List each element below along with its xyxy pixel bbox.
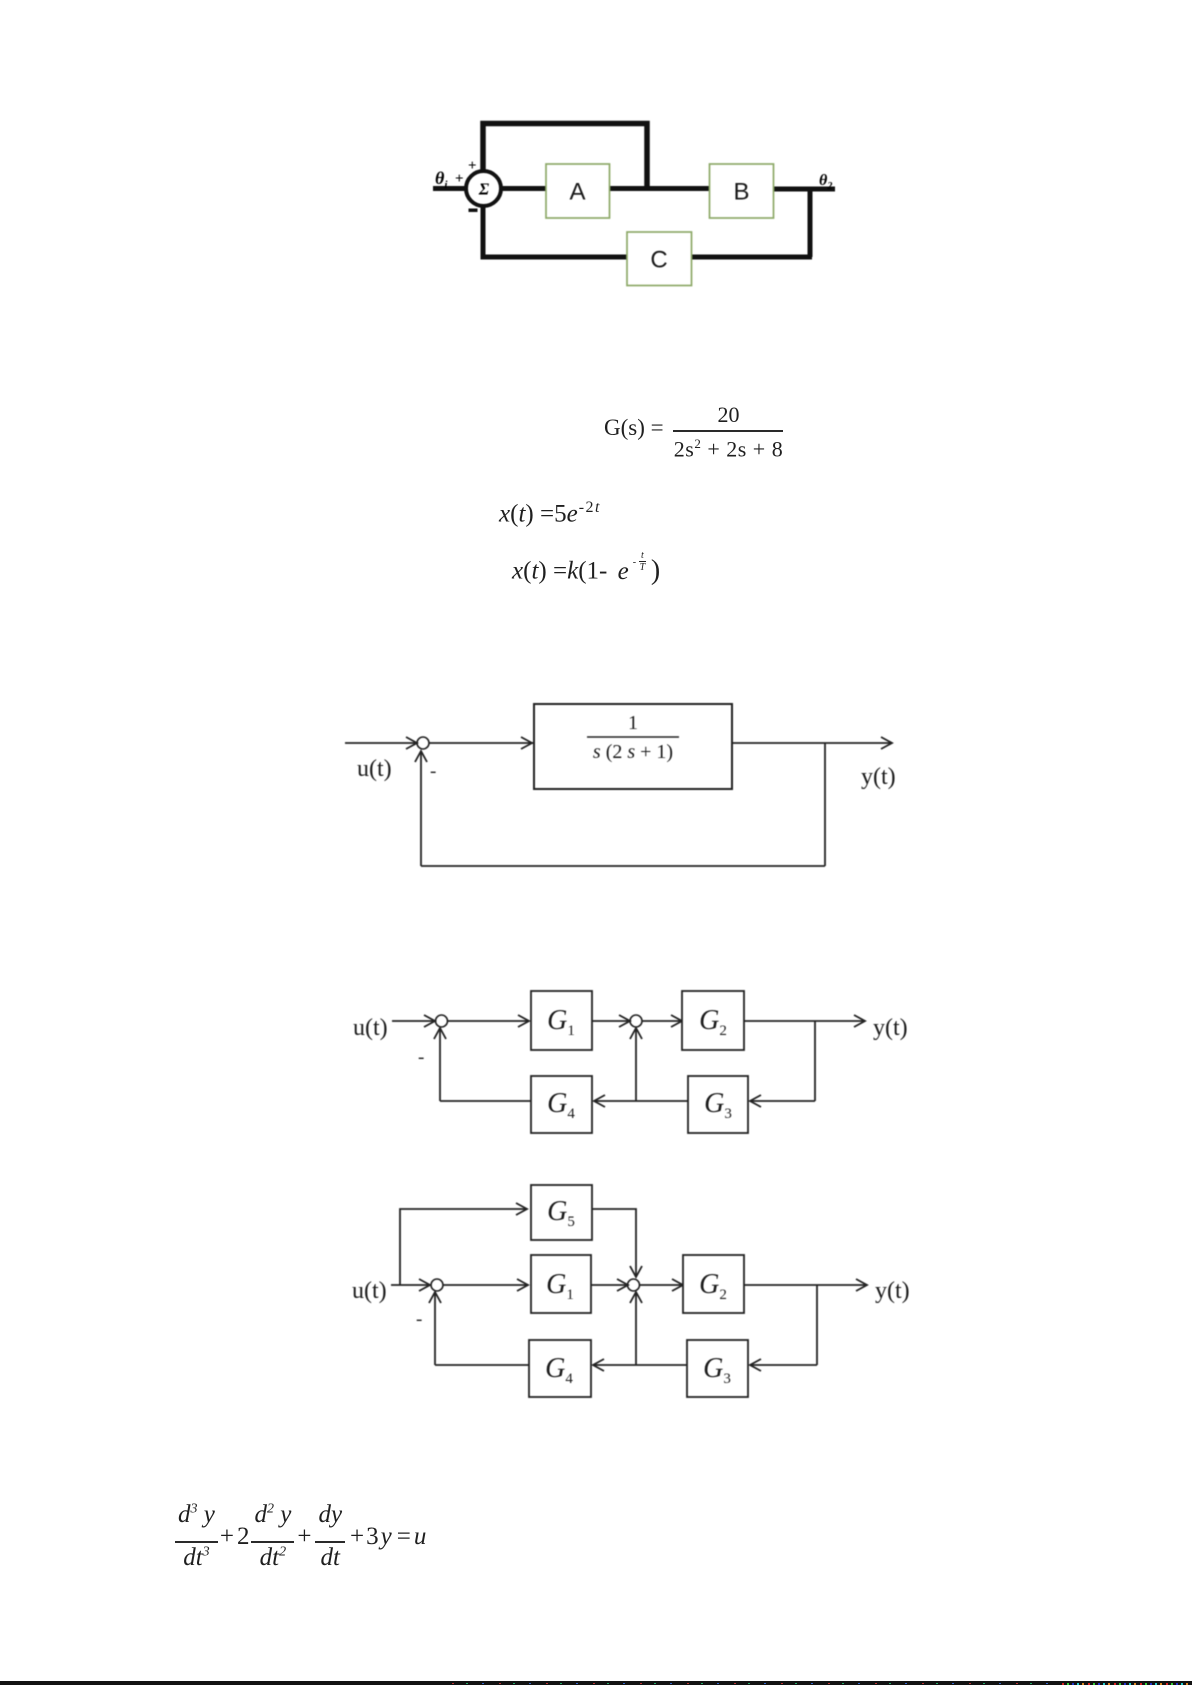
wire block A to block B: [609, 186, 710, 191]
arrowhead up into junction 2: [630, 1028, 642, 1039]
label G4: [545, 1353, 573, 1387]
svg-text:θi: θi: [435, 168, 448, 191]
wire junction2 to G2: [642, 1020, 681, 1022]
wire input: [391, 1284, 428, 1286]
summing junction sigma: [466, 171, 501, 206]
arrowhead into G1: [518, 1015, 529, 1027]
arrowhead into G4: [593, 1359, 604, 1371]
equation G(s)=20/(2s^2+2s+8): [604, 415, 664, 441]
arrowhead up into junction 2: [630, 1292, 642, 1303]
wire block B to output: [773, 187, 835, 192]
block G2: [683, 1255, 744, 1313]
block A: [546, 164, 610, 218]
wire output junction down: [814, 1021, 816, 1101]
label G2: [699, 1005, 727, 1039]
minus label: [418, 1047, 424, 1068]
wire up into summing junction 1: [439, 1029, 441, 1101]
wire output junction down: [816, 1285, 818, 1365]
svg-text:y(t): y(t): [873, 1015, 908, 1041]
arrowhead into summing junction: [406, 737, 417, 749]
svg-text:y(t): y(t): [875, 1278, 910, 1304]
equation x(t)=k(1-e^-t/T): [512, 551, 660, 587]
wire feedback up left: [420, 752, 422, 866]
arrowhead output: [881, 737, 892, 749]
wire output: [732, 742, 891, 744]
block G3: [687, 1340, 748, 1397]
wire output: [744, 1284, 865, 1286]
minus label: [430, 761, 436, 782]
arrowhead down into junction 2: [630, 1266, 642, 1277]
label G3: [703, 1353, 731, 1387]
arrowhead into G3: [750, 1359, 761, 1371]
summing junction 2: [630, 1015, 642, 1027]
summing junction 1: [431, 1279, 443, 1291]
wire junction1 to G1: [447, 1020, 529, 1022]
arrowhead into G3: [750, 1095, 761, 1107]
svg-text:A: A: [569, 179, 585, 206]
wire junction up to summing junction 2: [635, 1293, 637, 1365]
wire up into summing junction 1: [434, 1293, 436, 1365]
wire G1 to junction 2: [591, 1284, 626, 1286]
arrowhead into G5: [516, 1203, 527, 1215]
label u(t): [353, 1015, 388, 1041]
arrowhead up into junction 1: [434, 1028, 446, 1039]
label G3: [704, 1088, 732, 1122]
arrowhead into G2: [672, 1279, 683, 1291]
wire junction up to summing junction 2: [635, 1029, 637, 1101]
svg-text:B: B: [733, 179, 749, 206]
wire G5 to junction 2 down: [592, 1209, 636, 1276]
arrowhead output: [854, 1015, 865, 1027]
label G2: [699, 1269, 727, 1303]
label u(t): [357, 756, 392, 782]
block G1: [531, 1255, 591, 1313]
arrowhead into G1: [517, 1279, 528, 1291]
minus sign below summing junction: [469, 209, 478, 213]
node theta_o output label: [819, 172, 832, 192]
arrowhead into summing junction 2: [617, 1279, 628, 1291]
block G4: [529, 1340, 591, 1397]
block denominator s(2s+1): [593, 741, 673, 763]
wire branch up to G5: [400, 1209, 526, 1285]
svg-text:u(t): u(t): [352, 1278, 387, 1304]
wire junction to block: [429, 742, 533, 744]
bottom edge dark bar: [0, 1681, 1192, 1685]
wire input: [392, 1020, 433, 1022]
fraction bar in block: [587, 736, 679, 738]
svg-text:C: C: [650, 247, 667, 274]
label y(t): [861, 764, 896, 790]
svg-text:+: +: [468, 158, 477, 174]
label G1: [546, 1269, 574, 1303]
svg-text:+: +: [455, 171, 464, 187]
label G5: [547, 1196, 575, 1230]
arrowhead into G4: [594, 1095, 605, 1107]
svg-text:u(t): u(t): [357, 756, 392, 782]
equation x(t)=5e^-2t: [499, 499, 601, 528]
block G4: [531, 1076, 592, 1133]
label G1: [547, 1005, 575, 1039]
arrowhead into block: [521, 737, 532, 749]
wire G1 to junction 2: [592, 1020, 628, 1022]
svg-text:s (2 s + 1): s (2 s + 1): [593, 741, 673, 763]
svg-text:u(t): u(t): [353, 1015, 388, 1041]
arrowhead into summing junction 2: [619, 1015, 630, 1027]
block B: [710, 164, 774, 218]
label G4: [547, 1088, 575, 1122]
arrowhead output: [856, 1279, 867, 1291]
arrowhead up into summing junction: [415, 751, 427, 762]
block numerator 1: [628, 712, 638, 734]
arrowhead into summing junction 1: [419, 1279, 430, 1291]
wire G3 to G4: [594, 1100, 688, 1102]
block G1: [531, 991, 592, 1050]
wire input: [345, 742, 415, 744]
wire feedback bottom: [481, 255, 813, 260]
wire junction2 to G2: [639, 1284, 681, 1286]
svg-text:Σ: Σ: [478, 180, 490, 199]
block G3: [688, 1076, 748, 1133]
wire junction1 to G1: [443, 1284, 527, 1286]
label y(t): [873, 1015, 908, 1041]
wire feedforward loop top: [483, 124, 647, 187]
block 1/s(2s+1): [534, 704, 732, 789]
wire input to summing junction: [433, 186, 467, 191]
block C: [627, 232, 692, 286]
wire feedback bottom: [421, 865, 825, 867]
wire feedback down right: [824, 743, 826, 866]
equation d3y/dt3 + 2 d2y/dt2 + dy/dt + 3y = u: [175, 1501, 426, 1572]
block G2: [682, 991, 744, 1050]
svg-text:-: -: [416, 1309, 422, 1330]
wire G3 to G4: [593, 1364, 687, 1366]
arrowhead up into junction 1: [429, 1292, 441, 1303]
label u(t): [352, 1278, 387, 1304]
summing junction 2: [628, 1279, 640, 1291]
wire summing junction down to feedback: [481, 206, 486, 259]
block G5: [531, 1185, 592, 1240]
node theta_i input label: [435, 168, 464, 191]
minus label: [416, 1309, 422, 1330]
arrowhead into summing junction 1: [424, 1015, 435, 1027]
wire G4 to left: [440, 1100, 531, 1102]
summing junction: [417, 737, 429, 749]
label y(t): [875, 1278, 910, 1304]
arrowhead into G2: [671, 1015, 682, 1027]
wire output: [744, 1020, 863, 1022]
svg-text:1: 1: [628, 712, 638, 734]
svg-text:y(t): y(t): [861, 764, 896, 790]
wire into G3: [750, 1364, 817, 1366]
wire summing junction to block A: [501, 186, 547, 191]
wire output junction down: [808, 189, 813, 257]
svg-text:-: -: [430, 761, 436, 782]
wire G4 to left: [435, 1364, 529, 1366]
plus sign above summing junction: [468, 158, 477, 174]
summing junction 1: [436, 1015, 448, 1027]
svg-text:-: -: [418, 1047, 424, 1068]
wire into G3: [750, 1100, 815, 1102]
